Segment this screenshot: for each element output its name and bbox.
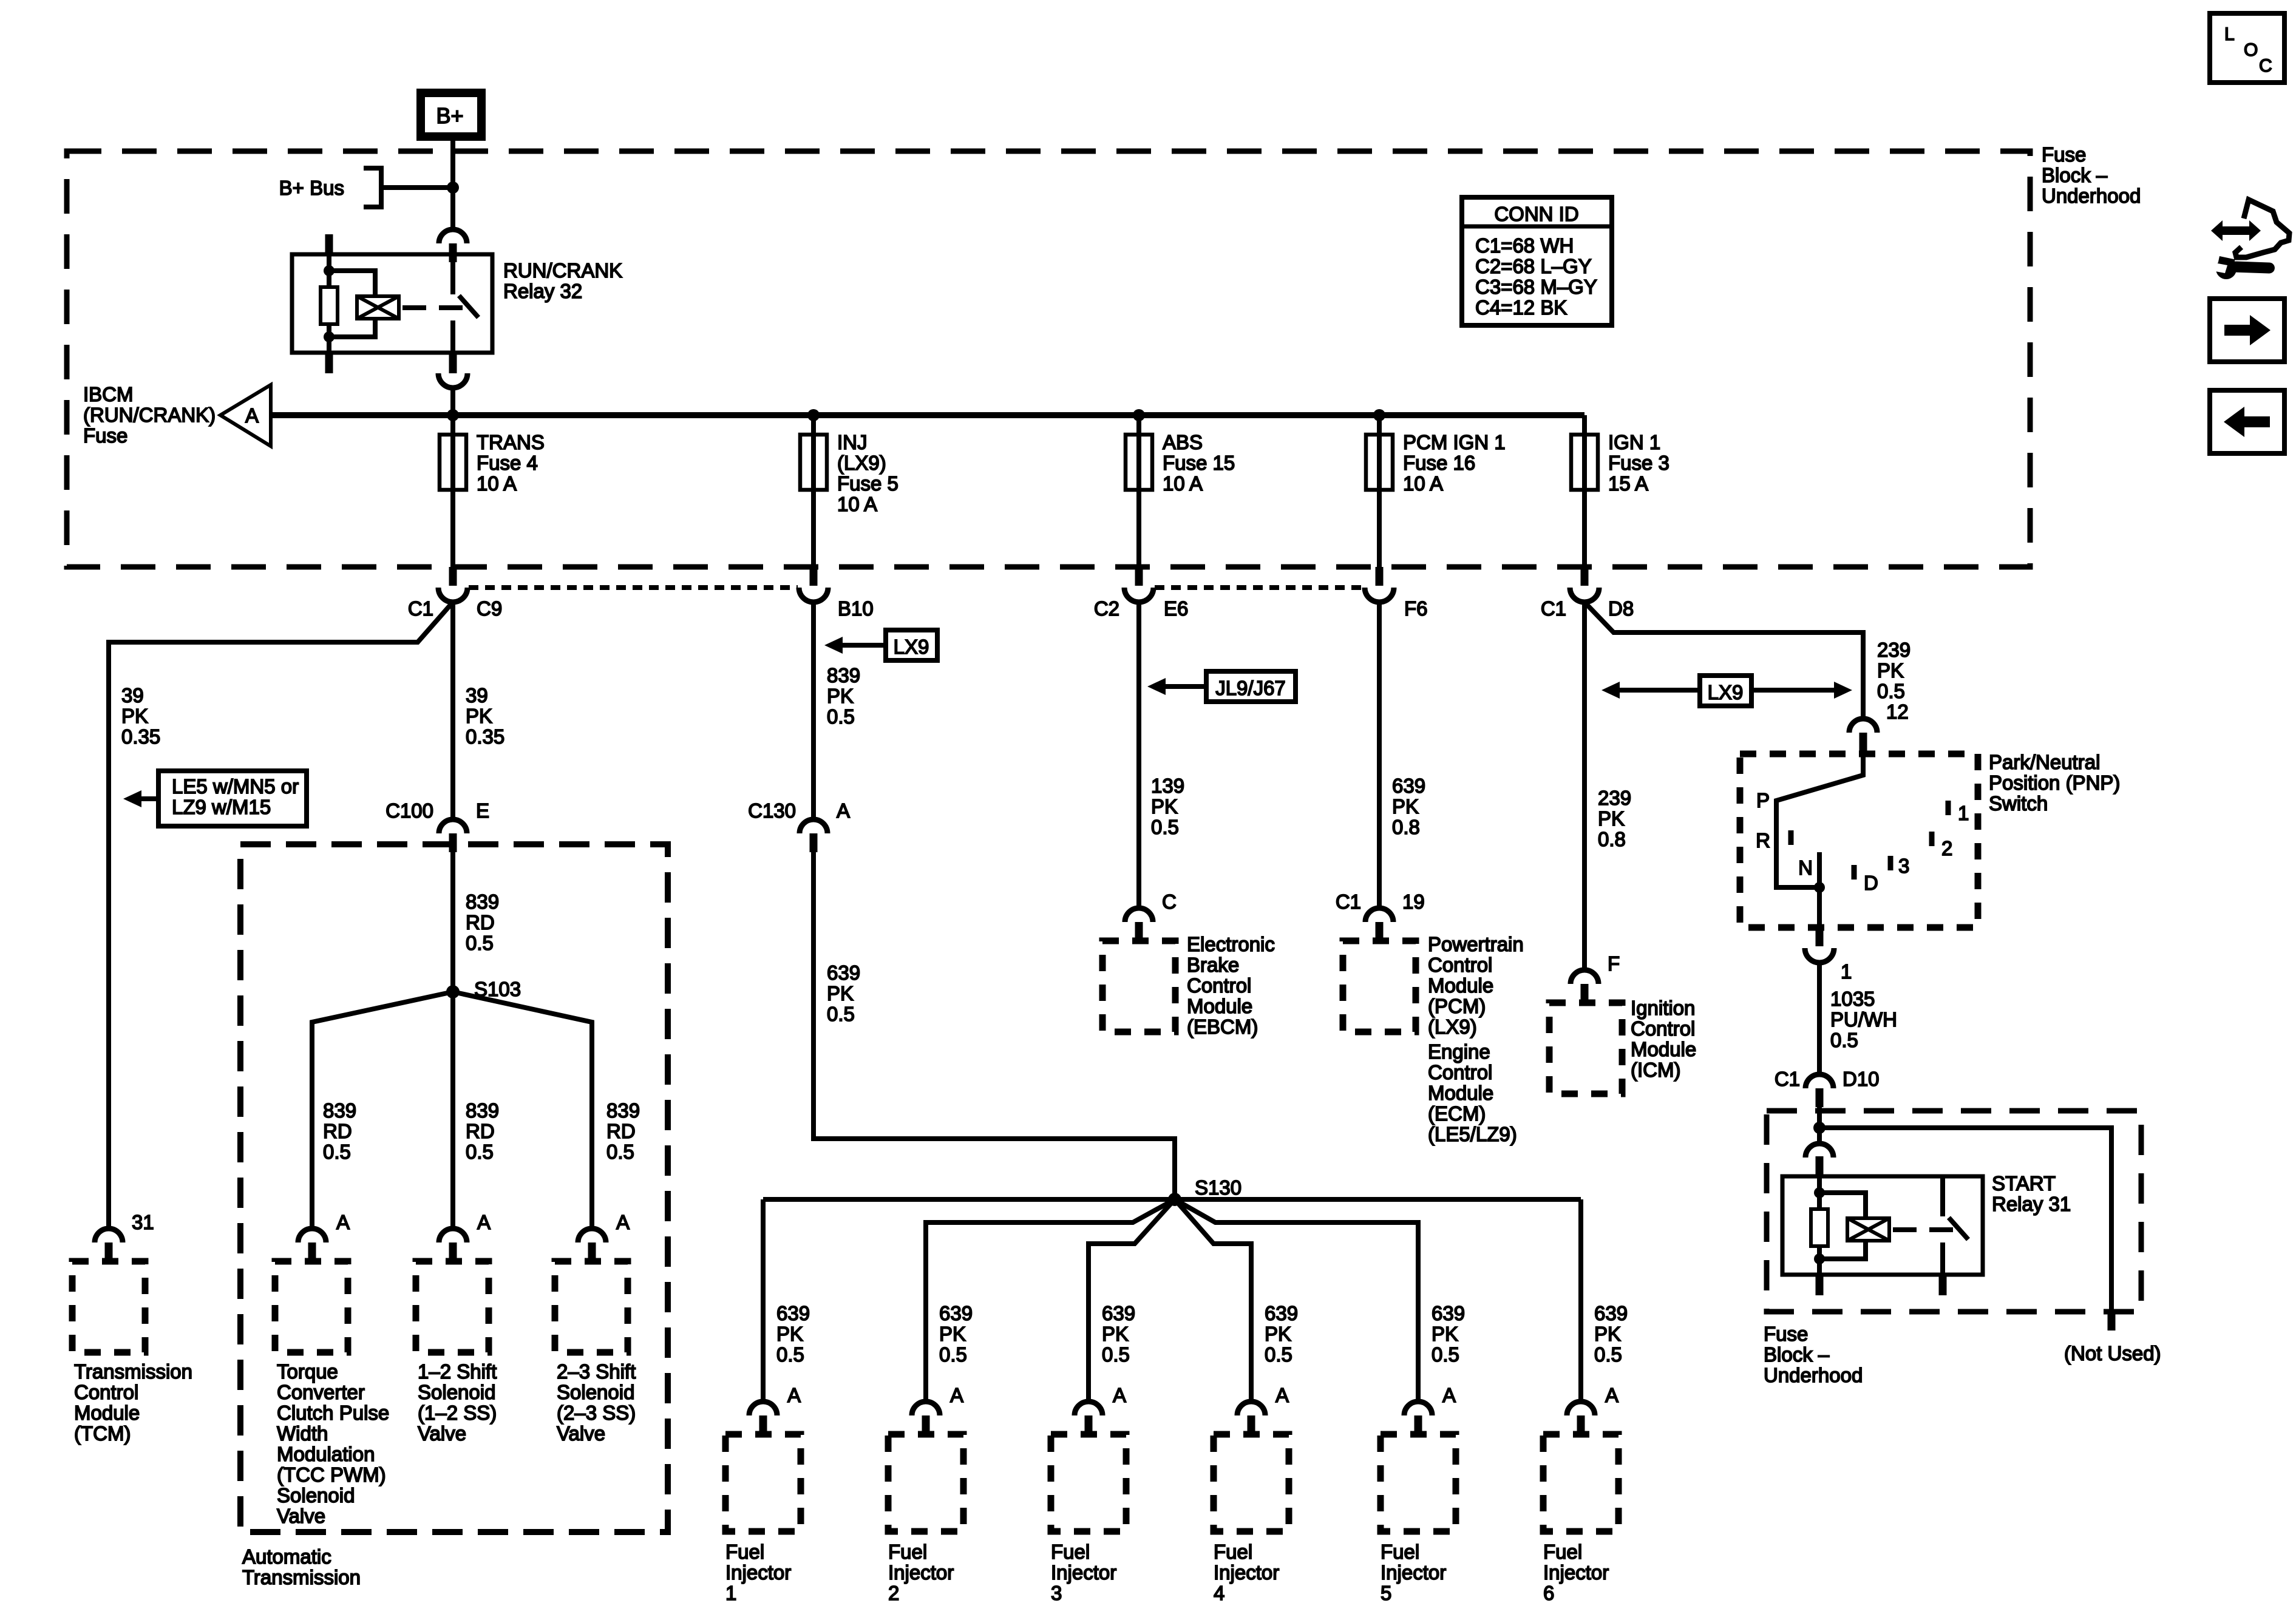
svg-text:D: D [1864,872,1878,894]
svg-text:L: L [2224,24,2235,44]
svg-text:RD: RD [323,1120,352,1142]
svg-text:Switch: Switch [1989,792,2048,815]
svg-text:C3=68 M–GY: C3=68 M–GY [1475,276,1597,298]
svg-text:639: 639 [1102,1302,1135,1324]
svg-text:839: 839 [466,1099,499,1122]
svg-text:PK: PK [1594,1323,1621,1345]
svg-text:12: 12 [1886,700,1909,723]
svg-text:JL9/J67: JL9/J67 [1215,677,1286,699]
svg-text:10 A: 10 A [477,472,517,495]
svg-text:PK: PK [776,1323,803,1345]
svg-text:Fuel: Fuel [888,1541,927,1563]
svg-text:A: A [616,1211,630,1233]
svg-text:B+: B+ [436,103,463,128]
svg-text:Fuse: Fuse [1764,1323,1808,1345]
svg-text:0.5: 0.5 [1830,1029,1858,1051]
svg-text:15 A: 15 A [1608,472,1648,495]
svg-text:4: 4 [1214,1582,1224,1604]
svg-text:Brake: Brake [1187,954,1239,976]
svg-text:Injector: Injector [1543,1561,1609,1584]
svg-text:0.35: 0.35 [121,725,160,748]
svg-text:C130: C130 [748,799,796,822]
svg-text:239: 239 [1598,787,1631,809]
svg-text:O: O [2244,40,2258,60]
svg-text:Control: Control [1428,1061,1492,1083]
svg-text:Fuse: Fuse [2042,143,2086,166]
svg-text:(Not Used): (Not Used) [2064,1342,2161,1364]
svg-text:Solenoid: Solenoid [557,1381,634,1403]
svg-text:CONN ID: CONN ID [1494,203,1578,225]
svg-text:IBCM: IBCM [83,383,134,405]
svg-text:139: 139 [1151,775,1184,797]
svg-text:3: 3 [1898,855,1909,877]
svg-text:Fuse 4: Fuse 4 [477,452,538,474]
svg-text:Relay 31: Relay 31 [1992,1193,2071,1215]
svg-text:Fuse 5: Fuse 5 [837,472,898,495]
svg-text:0.8: 0.8 [1598,828,1626,850]
svg-text:C1: C1 [408,597,433,620]
svg-text:10 A: 10 A [1163,472,1203,495]
svg-text:6: 6 [1543,1582,1554,1604]
svg-text:Engine: Engine [1428,1040,1490,1063]
svg-text:RD: RD [606,1120,636,1142]
svg-text:PK: PK [827,685,854,707]
svg-text:Control: Control [1187,974,1251,997]
svg-text:10 A: 10 A [1403,472,1443,495]
svg-text:Fuel: Fuel [1051,1541,1090,1563]
svg-text:TRANS: TRANS [477,431,545,453]
svg-text:0.5: 0.5 [606,1141,634,1163]
svg-text:(TCC PWM): (TCC PWM) [277,1463,386,1486]
svg-text:Fuel: Fuel [1381,1541,1419,1563]
svg-text:A: A [787,1384,801,1406]
svg-text:0.5: 0.5 [1594,1343,1622,1366]
svg-text:A: A [336,1211,350,1233]
svg-text:1–2 Shift: 1–2 Shift [418,1360,497,1383]
svg-text:(ECM): (ECM) [1428,1102,1486,1125]
svg-text:Valve: Valve [418,1422,466,1445]
svg-text:PK: PK [121,705,148,727]
svg-text:A: A [1113,1384,1126,1406]
svg-text:B10: B10 [838,597,874,620]
svg-text:Valve: Valve [277,1505,325,1527]
svg-text:Position (PNP): Position (PNP) [1989,771,2120,794]
svg-text:0.5: 0.5 [1151,816,1179,838]
svg-text:Powertrain: Powertrain [1428,933,1524,955]
svg-text:Automatic: Automatic [242,1545,331,1568]
svg-text:Park/Neutral: Park/Neutral [1989,751,2100,773]
svg-text:PCM IGN 1: PCM IGN 1 [1403,431,1506,453]
svg-text:2: 2 [1941,837,1952,859]
svg-text:RUN/CRANK: RUN/CRANK [503,259,622,282]
svg-text:1: 1 [1958,802,1969,824]
svg-text:B+ Bus: B+ Bus [279,177,344,199]
svg-text:P: P [1756,789,1770,812]
svg-text:(RUN/CRANK): (RUN/CRANK) [83,404,216,426]
svg-text:(LX9): (LX9) [1428,1015,1477,1038]
svg-text:A: A [950,1384,963,1406]
svg-text:INJ: INJ [837,431,868,453]
svg-text:PK: PK [1877,659,1904,682]
svg-text:(1–2 SS): (1–2 SS) [418,1402,497,1424]
svg-text:C100: C100 [385,799,433,822]
svg-text:31: 31 [132,1211,154,1233]
svg-text:(TCM): (TCM) [74,1422,131,1445]
svg-text:C: C [2259,56,2272,76]
svg-text:Fuel: Fuel [1214,1541,1252,1563]
svg-text:Injector: Injector [725,1561,791,1584]
svg-text:Solenoid: Solenoid [418,1381,495,1403]
svg-text:2–3 Shift: 2–3 Shift [557,1360,636,1383]
svg-text:0.5: 0.5 [466,1141,494,1163]
svg-text:Transmission: Transmission [74,1360,192,1383]
svg-text:Ignition: Ignition [1631,997,1695,1019]
svg-text:Solenoid: Solenoid [277,1484,355,1507]
svg-text:639: 639 [939,1302,973,1324]
svg-text:Control: Control [74,1381,138,1403]
svg-text:Module: Module [1428,974,1493,997]
svg-text:RD: RD [466,911,495,934]
svg-text:Fuse 3: Fuse 3 [1608,452,1669,474]
svg-text:Module: Module [74,1402,140,1424]
svg-text:39: 39 [121,684,144,707]
svg-text:PK: PK [1265,1323,1291,1345]
svg-text:PK: PK [1102,1323,1129,1345]
svg-text:RD: RD [466,1120,495,1142]
svg-text:A: A [837,799,850,822]
svg-text:Torque: Torque [277,1360,338,1383]
svg-text:Fuel: Fuel [1543,1541,1582,1563]
svg-text:E: E [476,799,489,822]
svg-text:839: 839 [606,1099,640,1122]
svg-text:C2: C2 [1094,597,1119,620]
svg-text:PK: PK [1432,1323,1458,1345]
svg-text:D8: D8 [1608,597,1634,620]
svg-text:Control: Control [1428,954,1492,976]
svg-text:0.35: 0.35 [466,725,504,748]
svg-text:0.5: 0.5 [827,705,855,728]
svg-text:F: F [1608,952,1620,975]
svg-text:3: 3 [1051,1582,1062,1604]
svg-text:PK: PK [466,705,492,727]
svg-text:0.5: 0.5 [323,1141,351,1163]
svg-text:C1: C1 [1541,597,1566,620]
svg-text:PK: PK [827,982,854,1005]
svg-text:239: 239 [1877,639,1911,661]
svg-text:0.5: 0.5 [1432,1343,1459,1366]
svg-text:A: A [477,1211,491,1233]
svg-text:PK: PK [939,1323,966,1345]
svg-text:Module: Module [1428,1082,1493,1104]
svg-text:C: C [1162,890,1177,913]
svg-text:Underhood: Underhood [1764,1364,1863,1386]
svg-text:Fuel: Fuel [725,1541,764,1563]
svg-text:639: 639 [1392,775,1425,797]
svg-text:(ICM): (ICM) [1631,1059,1680,1081]
svg-text:1: 1 [725,1582,736,1604]
svg-text:LX9: LX9 [894,636,929,658]
svg-text:0.5: 0.5 [827,1003,855,1025]
svg-text:Control: Control [1631,1017,1695,1040]
svg-text:C1=68 WH: C1=68 WH [1475,234,1574,257]
svg-text:LZ9 w/M15: LZ9 w/M15 [172,796,271,818]
svg-text:639: 639 [1594,1302,1628,1324]
svg-text:1035: 1035 [1830,988,1875,1010]
svg-text:LE5 w/MN5 or: LE5 w/MN5 or [172,775,299,798]
svg-text:0.5: 0.5 [466,932,494,954]
svg-text:F6: F6 [1404,597,1428,620]
svg-text:0.8: 0.8 [1392,816,1420,838]
svg-text:ABS: ABS [1163,431,1203,453]
svg-text:5: 5 [1381,1582,1391,1604]
svg-text:R: R [1756,829,1770,852]
svg-text:Valve: Valve [557,1422,605,1445]
svg-text:(2–3 SS): (2–3 SS) [557,1402,636,1424]
svg-text:PK: PK [1392,795,1419,818]
svg-text:C4=12 BK: C4=12 BK [1475,296,1567,319]
svg-text:Injector: Injector [1214,1561,1279,1584]
svg-text:10 A: 10 A [837,493,877,515]
svg-text:0.5: 0.5 [1877,680,1905,702]
svg-text:Module: Module [1187,995,1252,1017]
svg-text:Block –: Block – [1764,1343,1830,1366]
svg-text:2: 2 [888,1582,899,1604]
svg-text:Modulation: Modulation [277,1443,375,1465]
svg-text:PK: PK [1151,795,1178,818]
svg-text:639: 639 [827,961,860,984]
svg-text:START: START [1992,1172,2056,1195]
svg-text:Injector: Injector [1051,1561,1116,1584]
svg-text:PK: PK [1598,807,1625,830]
svg-text:PU/WH: PU/WH [1830,1008,1897,1031]
svg-text:839: 839 [827,664,860,686]
svg-text:(LE5/LZ9): (LE5/LZ9) [1428,1123,1517,1145]
svg-text:Electronic: Electronic [1187,933,1275,955]
svg-text:0.5: 0.5 [1265,1343,1292,1366]
svg-text:C2=68 L–GY: C2=68 L–GY [1475,255,1592,277]
svg-text:LX9: LX9 [1708,681,1744,703]
svg-text:C1: C1 [1775,1068,1800,1090]
svg-text:(PCM): (PCM) [1428,995,1486,1017]
svg-text:Fuse 16: Fuse 16 [1403,452,1475,474]
svg-text:639: 639 [776,1302,810,1324]
svg-text:Injector: Injector [888,1561,954,1584]
svg-text:Underhood: Underhood [2042,185,2141,207]
svg-text:IGN 1: IGN 1 [1608,431,1660,453]
svg-text:19: 19 [1402,890,1425,913]
svg-text:0.5: 0.5 [939,1343,967,1366]
svg-text:Clutch Pulse: Clutch Pulse [277,1402,389,1424]
svg-text:S130: S130 [1195,1176,1241,1199]
svg-text:0.5: 0.5 [1102,1343,1130,1366]
svg-text:1: 1 [1841,960,1852,983]
svg-text:A: A [1275,1384,1289,1406]
svg-text:Module: Module [1631,1038,1696,1060]
svg-text:39: 39 [466,684,488,707]
svg-text:(LX9): (LX9) [837,452,886,474]
svg-text:Injector: Injector [1381,1561,1446,1584]
svg-text:A: A [245,404,259,427]
svg-text:Fuse: Fuse [83,424,127,447]
svg-text:D10: D10 [1843,1068,1880,1090]
svg-text:E6: E6 [1164,597,1188,620]
svg-text:639: 639 [1432,1302,1465,1324]
svg-text:Fuse 15: Fuse 15 [1163,452,1235,474]
svg-text:N: N [1798,856,1813,879]
svg-text:Relay 32: Relay 32 [503,280,582,302]
svg-text:Transmission: Transmission [242,1566,361,1588]
svg-text:Width: Width [277,1422,328,1445]
svg-text:839: 839 [466,890,499,913]
svg-text:C9: C9 [477,597,502,620]
svg-text:C1: C1 [1336,890,1361,913]
svg-text:639: 639 [1265,1302,1298,1324]
svg-text:(EBCM): (EBCM) [1187,1015,1258,1038]
svg-text:839: 839 [323,1099,356,1122]
svg-text:0.5: 0.5 [776,1343,804,1366]
svg-text:Converter: Converter [277,1381,365,1403]
svg-text:Block –: Block – [2042,164,2108,186]
svg-text:A: A [1605,1384,1618,1406]
svg-text:A: A [1442,1384,1456,1406]
